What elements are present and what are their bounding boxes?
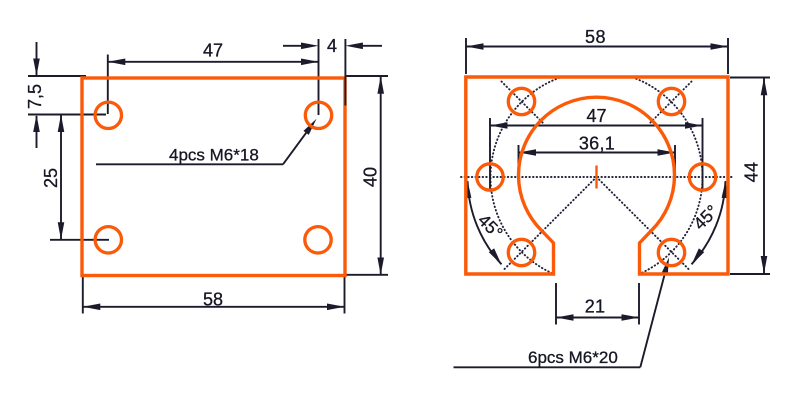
leader 6pcs M6*20 line xyxy=(454,256,673,367)
svg-text:40: 40 xyxy=(361,167,381,187)
dim 40 line xyxy=(377,76,384,275)
svg-text:6pcs M6*20: 6pcs M6*20 xyxy=(528,348,618,367)
extension line hole TR vertical xyxy=(318,39,320,115)
svg-text:44: 44 xyxy=(742,162,762,183)
svg-text:45°: 45° xyxy=(689,201,722,234)
dim 21 line xyxy=(556,314,639,321)
extension line 58 right xyxy=(727,38,729,74)
extension line 44 top xyxy=(730,77,770,79)
svg-text:58: 58 xyxy=(585,27,606,47)
dotted bolt circle xyxy=(491,71,703,283)
svg-text:4: 4 xyxy=(327,36,337,56)
plate outline (right view) xyxy=(466,77,728,274)
hole bottom-left (right view) xyxy=(508,239,534,265)
extension line 40 bottom xyxy=(345,274,388,276)
extension line 36,1 left xyxy=(518,145,520,180)
svg-text:36,1: 36,1 xyxy=(579,134,615,154)
svg-text:21: 21 xyxy=(585,297,606,317)
extension line lower-hole centerline xyxy=(50,239,109,241)
angle arc 45 right xyxy=(689,180,729,266)
dotted radial centerline to hole bottom-left xyxy=(503,177,597,271)
hole TR xyxy=(305,102,331,128)
extension line 21 left xyxy=(555,283,557,325)
hole BL xyxy=(95,227,121,253)
angle arc 45 left xyxy=(464,180,504,266)
dotted radial at hole top-right xyxy=(650,82,692,124)
dim 4 right tail xyxy=(345,43,382,50)
extension line 47 right xyxy=(702,118,704,189)
dotted radial centerline to hole bottom-right xyxy=(597,177,691,271)
hole mid-left (right view) xyxy=(477,164,503,190)
dim 58 line xyxy=(83,304,345,311)
dim 58 line (right view) xyxy=(466,43,728,50)
extension line top-right (40 upper ref) xyxy=(345,75,388,77)
extension line top-left (7,5 upper ref) xyxy=(28,75,86,77)
hole TL xyxy=(95,102,121,128)
svg-text:4pcs M6*18: 4pcs M6*18 xyxy=(169,146,259,165)
extension line 44 bottom xyxy=(730,273,770,275)
svg-text:45°: 45° xyxy=(474,210,507,243)
dim 25 line xyxy=(58,115,65,240)
svg-text:47: 47 xyxy=(203,41,223,61)
hole top-left (right view) xyxy=(508,88,534,114)
hole BR xyxy=(305,227,331,253)
extension line 36,1 right xyxy=(674,145,676,180)
hole bottom-right (right view) xyxy=(658,239,684,265)
extension line 58 left xyxy=(465,38,467,74)
svg-text:47: 47 xyxy=(586,106,606,126)
hole mid-right (right view) xyxy=(689,164,715,190)
dim 44 line xyxy=(761,78,768,274)
svg-text:7,5: 7,5 xyxy=(25,84,45,109)
extension line 58 right xyxy=(344,277,346,314)
plate outline (left view) xyxy=(82,78,345,276)
extension line 47 left xyxy=(489,118,491,189)
dim 47 line xyxy=(108,59,319,66)
extension line upper-hole centerline xyxy=(28,114,106,116)
dim 7,5 lower arrow xyxy=(33,115,40,149)
svg-text:58: 58 xyxy=(203,289,223,309)
extension line 21 right xyxy=(638,283,640,325)
dim 4 left tail xyxy=(283,43,319,50)
extension line 58 left xyxy=(82,277,84,314)
center tick xyxy=(595,166,597,189)
dotted horizontal centerline xyxy=(461,176,732,178)
extension line hole TL vertical xyxy=(107,55,109,115)
svg-text:25: 25 xyxy=(41,168,61,188)
leader 4pcs M6*18 line xyxy=(96,117,319,164)
dim 36,1 line xyxy=(519,149,676,156)
dim 47 line (right view) xyxy=(490,122,703,129)
dotted radial at hole top-left xyxy=(502,82,544,124)
hole top-right (right view) xyxy=(658,88,684,114)
extension line right edge vertical xyxy=(344,39,346,106)
dim 7,5 upper arrow xyxy=(33,42,40,76)
